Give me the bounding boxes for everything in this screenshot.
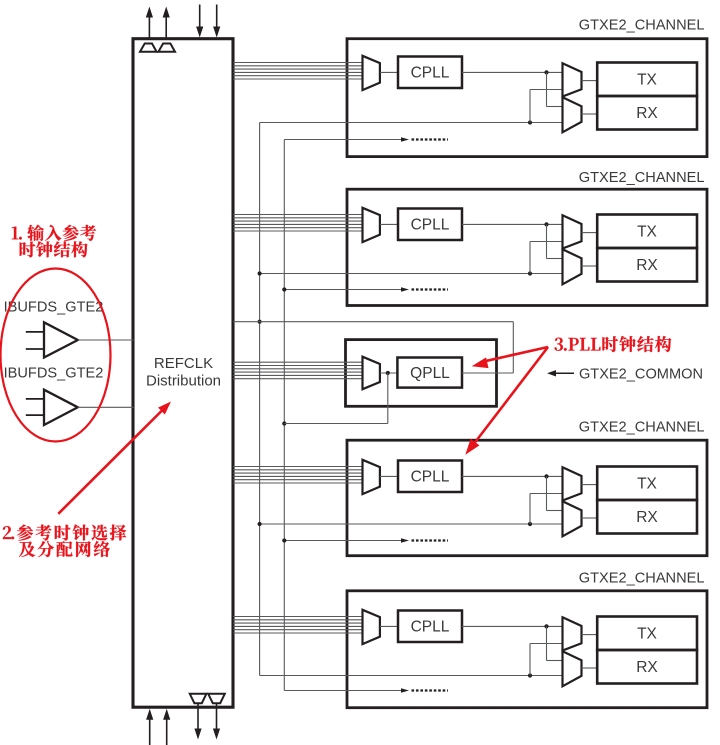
junction	[528, 271, 532, 275]
clock output arrow (top, up) 2	[163, 7, 170, 41]
RX block (channel 5)	[597, 650, 697, 684]
GTXE2_COMMON label	[579, 366, 703, 382]
wire mux to CPLL	[380, 625, 398, 627]
svg-text:TX: TX	[637, 626, 657, 643]
junction	[282, 538, 286, 542]
wire QPLL clock to TX mux	[530, 242, 563, 274]
CPLL (channel 5)	[398, 611, 462, 643]
wire TX mux to TX	[582, 80, 598, 82]
channel 5 refclk select mux	[363, 610, 380, 644]
CPLL (channel 2)	[398, 209, 462, 241]
refclk bundle wires to channel 5 mux	[233, 617, 363, 634]
CPLL (channel 4)	[398, 461, 462, 493]
junction	[282, 421, 286, 425]
clock output arrow (top, up)	[146, 7, 153, 41]
wire mux to CPLL	[380, 71, 398, 73]
RX block (channel 1)	[597, 96, 697, 130]
junction	[528, 522, 532, 526]
junction	[282, 287, 286, 291]
GTXE2_COMMON box	[346, 340, 497, 407]
channel 1 TX clock mux	[563, 63, 582, 96]
junction	[528, 673, 532, 677]
svg-text:IBUFDS_GTE2: IBUFDS_GTE2	[4, 366, 104, 382]
refclk input arrow (top, down)	[196, 5, 203, 38]
CPLL (channel 1)	[398, 57, 462, 89]
wire south clock into channel 4	[284, 538, 448, 542]
refclk bundle wires to channel 4 mux	[233, 467, 363, 484]
wire south clock into channel 5	[284, 688, 448, 692]
GTXE2_CHANNEL 5 label	[579, 571, 705, 587]
REFCLK Distribution block	[133, 39, 233, 708]
wire QPLL clock into channel 1	[260, 122, 563, 124]
svg-text:CPLL: CPLL	[411, 64, 450, 81]
wire QPLL clock to TX mux	[530, 644, 563, 676]
svg-text:GTXE2_CHANNEL: GTXE2_CHANNEL	[579, 18, 705, 34]
wire CPLL output to TX mux	[462, 71, 563, 73]
svg-text:TX: TX	[637, 476, 657, 493]
refclk input arrow (bottom, up) 2	[163, 709, 170, 745]
wire CPLL clock to RX mux	[547, 72, 563, 106]
wire TX mux to TX	[582, 634, 598, 636]
wire QPLL clock into channel 5	[260, 675, 563, 677]
GTXE2_CHANNEL 5 box	[347, 591, 707, 708]
IBUFDS_GTE2 label 2	[4, 366, 104, 382]
wire QPLL clock to TX mux	[530, 494, 563, 525]
QPLL	[397, 358, 462, 388]
input buffer IBUFDS_GTE2 #1	[26, 322, 78, 357]
refclk input arrow (top, down) 2	[213, 5, 220, 38]
wire CPLL output to TX mux	[462, 625, 563, 627]
junction	[544, 222, 548, 226]
channel 5 RX clock mux	[563, 651, 582, 686]
red ellipse around input buffers	[1, 269, 111, 442]
svg-text:RX: RX	[636, 659, 658, 676]
svg-text:RX: RX	[636, 257, 658, 274]
svg-text:GTXE2_COMMON: GTXE2_COMMON	[579, 366, 703, 382]
red arrow note3 to CPLL of channel 4	[461, 347, 548, 458]
wire buffer1 to REFCLK box	[78, 339, 134, 341]
channel 1 RX clock mux	[563, 97, 582, 132]
clock output arrow (bottom, down)	[194, 703, 201, 739]
GTXE2_CHANNEL 1 box	[347, 39, 707, 157]
junction	[528, 120, 532, 124]
wire TX mux to TX	[582, 232, 598, 234]
wire CPLL output to TX mux	[462, 223, 563, 225]
wire mux to QPLL	[380, 372, 398, 374]
svg-text:CPLL: CPLL	[411, 216, 450, 233]
red note 1: input reference clock structure	[12, 225, 96, 258]
wire QPLL clock to TX mux	[530, 90, 563, 123]
channel 4 TX clock mux	[563, 467, 582, 500]
svg-text:CPLL: CPLL	[411, 468, 450, 485]
input buffer IBUFDS_GTE2 #2	[26, 390, 78, 425]
clock output arrow (bottom, down) 2	[213, 703, 220, 739]
svg-text:REFCLK: REFCLK	[154, 355, 213, 372]
channel 2 RX clock mux	[563, 249, 582, 284]
channel 2 TX clock mux	[563, 215, 582, 248]
REFCLK Distribution label	[146, 355, 221, 390]
channel 4 RX clock mux	[563, 501, 582, 536]
GTXE2_COMMON pointer arrow	[547, 370, 574, 376]
svg-text:GTXE2_CHANNEL: GTXE2_CHANNEL	[579, 170, 705, 186]
svg-text:GTXE2_CHANNEL: GTXE2_CHANNEL	[579, 571, 705, 587]
GTXE2_CHANNEL 4 label	[579, 420, 705, 436]
TX block (channel 2)	[597, 215, 697, 249]
wire QPLL clock into channel 2	[260, 273, 563, 275]
svg-text:TX: TX	[637, 72, 657, 89]
TX block (channel 1)	[597, 63, 697, 97]
wire TX mux to TX	[582, 484, 598, 486]
refclk input arrow (bottom, up)	[146, 709, 153, 745]
TX block (channel 5)	[597, 617, 697, 651]
junction	[544, 624, 548, 628]
recovered clock output mux pair (top)	[140, 44, 175, 52]
svg-text:GTXE2_CHANNEL: GTXE2_CHANNEL	[579, 420, 705, 436]
junction	[544, 70, 548, 74]
junction	[258, 320, 262, 324]
wire QPLL refclk node down to line B	[284, 373, 388, 424]
junction	[386, 371, 390, 375]
wire vertical distribution line B	[283, 140, 285, 691]
svg-text:RX: RX	[636, 105, 658, 122]
QPLL refclk select mux	[363, 357, 380, 390]
wire QPLL clock into channel 4	[260, 523, 563, 525]
wire CPLL clock to RX mux	[547, 476, 563, 510]
channel 2 refclk select mux	[363, 208, 380, 242]
junction	[258, 271, 262, 275]
red arrow note2 to REFCLK box	[58, 398, 174, 514]
svg-text:QPLL: QPLL	[410, 365, 450, 382]
junction	[544, 474, 548, 478]
svg-text:IBUFDS_GTE2: IBUFDS_GTE2	[4, 300, 104, 316]
RX block (channel 4)	[597, 500, 697, 534]
wire south clock into channel 2	[284, 287, 448, 291]
GTXE2_CHANNEL 2 box	[347, 189, 707, 305]
refclk bundle wires to channel 2 mux	[233, 215, 363, 232]
wire CPLL clock to RX mux	[547, 224, 563, 258]
channel 1 refclk select mux	[363, 56, 380, 90]
GTXE2_CHANNEL 4 box	[347, 440, 707, 556]
wire CPLL output to TX mux	[462, 475, 563, 477]
wire RX mux to RX	[582, 113, 598, 115]
clock output mux pair (bottom)	[190, 694, 225, 703]
channel 4 refclk select mux	[363, 460, 380, 494]
junction	[258, 522, 262, 526]
svg-text:TX: TX	[637, 224, 657, 241]
wire RX mux to RX	[582, 517, 598, 519]
IBUFDS_GTE2 label 1	[4, 300, 104, 316]
wire RX mux to RX	[582, 265, 598, 267]
wire QPLL output up to distribution line A	[233, 322, 513, 373]
refclk bundle wires to channel 1 mux	[233, 63, 363, 80]
svg-text:RX: RX	[636, 509, 658, 526]
svg-text:Distribution: Distribution	[146, 373, 221, 390]
red note 2: reference clock selection and distribution network	[3, 525, 126, 557]
GTXE2_CHANNEL 2 label	[579, 170, 705, 186]
refclk bundle wires to QPLL mux	[233, 362, 363, 379]
GTXE2_CHANNEL 1 label	[579, 18, 705, 34]
TX block (channel 4)	[597, 467, 697, 501]
wire CPLL clock to RX mux	[547, 626, 563, 660]
svg-text:CPLL: CPLL	[411, 618, 450, 635]
wire south clock into channel 1	[284, 137, 448, 141]
wire vertical distribution line A	[259, 123, 261, 676]
wire mux to CPLL	[380, 475, 398, 477]
wire RX mux to RX	[582, 667, 598, 669]
red note 3: PLL clock structure	[555, 336, 672, 352]
wire buffer2 to REFCLK box	[78, 406, 134, 408]
wire mux to CPLL	[380, 223, 398, 225]
channel 5 TX clock mux	[563, 617, 582, 650]
red arrow note3 to QPLL	[470, 347, 548, 372]
RX block (channel 2)	[597, 248, 697, 282]
